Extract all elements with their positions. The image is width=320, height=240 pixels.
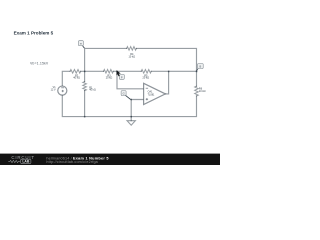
svg-text:m: m — [80, 43, 82, 46]
svg-text:10 kΩ: 10 kΩ — [128, 55, 135, 58]
svg-text:TL081: TL081 — [148, 94, 155, 97]
svg-text:20 kΩ: 20 kΩ — [106, 77, 113, 80]
svg-text:10 kΩ: 10 kΩ — [199, 90, 206, 93]
svg-text:20 kΩ: 20 kΩ — [142, 77, 149, 80]
svg-text:Vb=1.15kV: Vb=1.15kV — [30, 62, 49, 66]
svg-text:http://circuitlab.com/c/e2rfga: http://circuitlab.com/c/e2rfga — [46, 160, 98, 164]
svg-text:B: B — [200, 65, 202, 69]
svg-text:P: P — [121, 75, 123, 79]
svg-text:12 V: 12 V — [51, 88, 56, 91]
svg-text:Exam 1 Problem 5: Exam 1 Problem 5 — [14, 30, 54, 35]
svg-text:LAB: LAB — [22, 160, 30, 164]
svg-text:40 kΩ: 40 kΩ — [89, 89, 96, 92]
svg-text:40 kΩ: 40 kΩ — [73, 77, 80, 80]
svg-text:G: G — [123, 92, 125, 96]
